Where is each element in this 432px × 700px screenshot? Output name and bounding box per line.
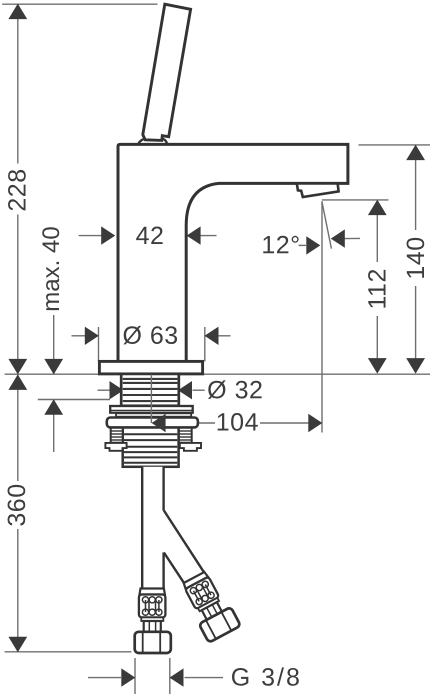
dome under lever — [138, 139, 167, 145]
braid base band — [141, 617, 163, 621]
arrow 42 right (left-pointing) — [187, 226, 201, 244]
extension line bottom of counter (max.40) — [38, 399, 110, 401]
svg-text:140: 140 — [402, 236, 430, 279]
svg-text:max. 40: max. 40 — [38, 226, 65, 311]
left foot — [105, 443, 126, 451]
leader 12deg second arrow — [345, 237, 361, 239]
extension line faucet top right — [359, 144, 431, 146]
connection nut G3/8 — [135, 632, 171, 653]
arrow 140 bottom (down) — [406, 358, 425, 374]
re-draw 104 left arrow above nut — [152, 414, 166, 432]
arrow dia63 right (left-pointing) — [205, 327, 219, 345]
arrow max40 bottom (up) — [44, 399, 63, 415]
svg-text:Ø 63: Ø 63 — [122, 322, 178, 350]
neck — [144, 621, 161, 632]
dimension line 360 (left) — [17, 374, 19, 481]
left stud — [111, 427, 123, 442]
threaded shank — [121, 374, 179, 406]
arrow 228 top (up) — [8, 4, 27, 20]
svg-text:G 3/8: G 3/8 — [231, 663, 302, 691]
leader 42 left — [79, 235, 102, 237]
arrow 112 top (up) — [368, 200, 387, 216]
block ridges — [124, 434, 177, 463]
dimension line 140 — [415, 159, 417, 230]
mounting surface extension line — [5, 373, 99, 375]
extension line top (lever top level) — [2, 3, 157, 5]
extension line hose end (360 bottom) — [5, 651, 132, 653]
arrow dia63 left (right-pointing) — [85, 327, 99, 345]
arrow 12deg (right-pointing) — [306, 236, 320, 254]
diagonal hose tube — [164, 511, 204, 583]
arrow 42 left (right-pointing) — [101, 226, 115, 244]
collar — [140, 589, 165, 595]
svg-text:Ø 32: Ø 32 — [207, 376, 263, 404]
arrow 104 right (right-pointing) — [308, 414, 322, 432]
leader G3/8 left — [88, 677, 121, 679]
arrow 228 bottom (down) — [8, 359, 27, 375]
extension line 104 right / spout vertical reference — [321, 201, 323, 432]
arrow G3/8 left (right-pointing) — [121, 668, 135, 686]
svg-text:112: 112 — [364, 268, 392, 309]
arrow 360 bottom (down) — [8, 637, 27, 653]
leader G3/8 right — [185, 677, 224, 679]
dimension line 112 — [376, 214, 378, 262]
dimension line 104 — [167, 422, 215, 424]
hose end assembly: diagonal hose (reuse rotated) — [179, 569, 241, 643]
extension line G3/8 right — [169, 658, 171, 694]
arrow 360 top (up) — [8, 374, 27, 390]
arrow 12deg onto slant (left-pointing) — [331, 229, 345, 247]
leader dia63 right — [218, 335, 231, 337]
arrow 140 top (up) — [406, 145, 425, 161]
dimension line 228 (left, x=17.8) — [17, 4, 19, 163]
svg-text:104: 104 — [216, 408, 259, 436]
lever handle — [143, 4, 191, 140]
arrow 112 bottom (down) — [368, 358, 387, 374]
arrow G3/8 right (left-pointing) — [170, 668, 184, 686]
extension line dia63 right — [204, 327, 206, 362]
hose end assembly: vertical hose — [135, 589, 171, 654]
leader dia63 left — [72, 335, 87, 337]
extension line spout outlet — [322, 199, 389, 201]
centerline of faucet — [150, 375, 152, 424]
braid section — [139, 595, 166, 618]
arrow 104 left (left-pointing) — [152, 414, 166, 432]
arrow dia32 left (right-pointing) — [110, 381, 124, 399]
extension line G3/8 left — [134, 658, 136, 694]
leader dia32 right — [193, 389, 205, 391]
mounting nut — [107, 418, 198, 428]
leader 12deg — [299, 244, 307, 246]
shank thread lines — [123, 379, 178, 401]
leader dia32 left — [98, 389, 111, 391]
faucet body and spout — [118, 144, 348, 361]
right stud — [179, 427, 192, 442]
leader 42 right — [200, 235, 216, 237]
arrow dia32 right (left-pointing) — [178, 381, 192, 399]
svg-text:360: 360 — [3, 483, 31, 526]
right foot — [180, 443, 201, 451]
arrow max40 top (down) — [44, 359, 63, 375]
washer — [110, 406, 193, 413]
svg-text:12°: 12° — [261, 231, 300, 259]
slanted 12deg line — [322, 201, 332, 248]
dimension line max.40 — [53, 315, 55, 374]
central hose block — [123, 423, 179, 467]
base plate (escutcheon) — [99, 361, 202, 374]
svg-text:42: 42 — [136, 222, 165, 250]
svg-text:228: 228 — [3, 168, 31, 211]
vertical supply pipe — [142, 467, 163, 589]
thin ring — [116, 413, 191, 416]
aerator under spout — [297, 183, 339, 197]
extension line dia63 left — [98, 327, 100, 362]
